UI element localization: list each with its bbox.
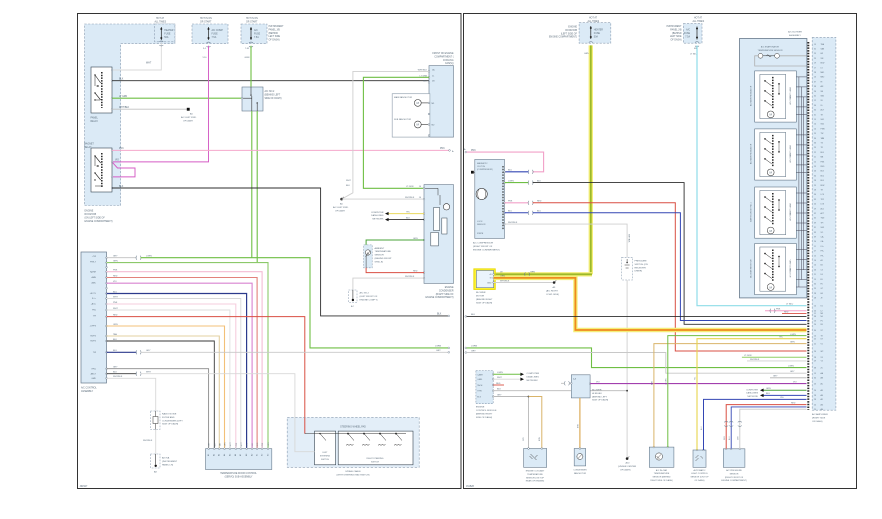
blower block 3 bbox=[750, 187, 807, 238]
svg-text:WHT/BLK: WHT/BLK bbox=[113, 376, 123, 378]
svg-text:AMH: AMH bbox=[92, 276, 97, 279]
svg-text:ROOM R/B: ROOM R/B bbox=[85, 214, 97, 216]
empty pin bbox=[106, 266, 108, 268]
svg-text:28: 28 bbox=[814, 190, 816, 192]
svg-text:34: 34 bbox=[814, 330, 816, 332]
svg-text:31: 31 bbox=[814, 227, 816, 229]
svg-text:ENGINE COMPARTMENT): ENGINE COMPARTMENT) bbox=[721, 479, 747, 482]
svg-text:ENGINE COOLANT: ENGINE COOLANT bbox=[526, 470, 545, 473]
engine coolant temp sensor bbox=[524, 448, 547, 483]
svg-text:SENSOR (ON TOP: SENSOR (ON TOP bbox=[526, 477, 545, 479]
label computer data lines right bbox=[746, 389, 759, 398]
steering pad label bbox=[336, 470, 369, 477]
svg-text:DATA LINES: DATA LINES bbox=[371, 214, 384, 217]
blower block 1 bbox=[750, 71, 807, 122]
wire row17 GRY drop bbox=[106, 367, 209, 449]
svg-text:RED: RED bbox=[413, 270, 418, 272]
wire row4 PNK drop bbox=[106, 270, 262, 449]
svg-text:PRESSURE: PRESSURE bbox=[635, 261, 648, 263]
svg-text:CANL: CANL bbox=[477, 378, 482, 381]
svg-text:T8: T8 bbox=[821, 335, 823, 337]
svg-text:PNK: PNK bbox=[113, 270, 118, 272]
svg-text:BLU: BLU bbox=[508, 211, 513, 213]
svg-text:SENSOR (BEHIND: SENSOR (BEHIND bbox=[653, 477, 671, 479]
svg-text:WHT/BLK: WHT/BLK bbox=[500, 280, 510, 282]
svg-text:CONDENSER: CONDENSER bbox=[439, 290, 454, 292]
svg-text:29: 29 bbox=[814, 409, 816, 411]
svg-text:A/C NO.2: A/C NO.2 bbox=[360, 292, 370, 295]
svg-text:HEATER: HEATER bbox=[164, 29, 173, 32]
svg-text:PNK: PNK bbox=[508, 201, 513, 203]
wire row13 ORN drop bbox=[106, 324, 225, 449]
wire BLK data line bbox=[385, 217, 424, 221]
svg-text:BLK: BLK bbox=[423, 80, 428, 82]
svg-text:RADIO NOISE: RADIO NOISE bbox=[162, 413, 177, 416]
svg-text:GRN: GRN bbox=[530, 272, 535, 274]
A/C in-car temperature sensor bbox=[649, 446, 674, 482]
svg-text:ENGINE: ENGINE bbox=[476, 407, 485, 409]
svg-text:19: 19 bbox=[814, 373, 816, 375]
blower HI relay box bbox=[561, 375, 608, 402]
svg-text:STEERING WHEEL PAD: STEERING WHEEL PAD bbox=[340, 426, 366, 429]
svg-text:LT GRN: LT GRN bbox=[665, 378, 667, 385]
label computer data lines bbox=[371, 212, 384, 221]
svg-text:WHT: WHT bbox=[113, 296, 118, 298]
svg-text:PNK: PNK bbox=[113, 302, 118, 304]
wire LT BLU to A/C amplifier bbox=[697, 45, 807, 305]
svg-text:7.5A: 7.5A bbox=[254, 36, 259, 39]
svg-text:33: 33 bbox=[814, 232, 816, 234]
svg-text:BLOWER REGULATOR: BLOWER REGULATOR bbox=[750, 85, 753, 106]
svg-text:OF DASH): OF DASH) bbox=[695, 479, 705, 482]
wire RED stub row bbox=[782, 311, 807, 313]
svg-text:ORN: ORN bbox=[500, 276, 505, 278]
svg-text:29: 29 bbox=[814, 147, 816, 149]
svg-text:(BEHIND: (BEHIND bbox=[269, 33, 279, 35]
svg-text:28: 28 bbox=[814, 72, 816, 74]
svg-text:RELAY: RELAY bbox=[84, 146, 92, 149]
pressure switch box bbox=[622, 257, 648, 280]
svg-text:HI RELAY: HI RELAY bbox=[592, 392, 602, 395]
wire LT GRN cooling fan to condenser ECU bbox=[363, 77, 429, 188]
svg-text:(RIGHT SIDE: (RIGHT SIDE bbox=[812, 418, 826, 420]
svg-text:HOT IN ON: HOT IN ON bbox=[246, 18, 258, 20]
svg-text:U9: U9 bbox=[821, 339, 823, 341]
svg-text:X3: X3 bbox=[821, 357, 823, 359]
svg-text:VENT CONNECTOR: VENT CONNECTOR bbox=[788, 260, 790, 278]
wire LT GRN stub row bbox=[742, 355, 807, 357]
svg-text:29: 29 bbox=[814, 58, 816, 60]
svg-text:GRY: GRY bbox=[773, 376, 778, 378]
svg-text:OF DASH): OF DASH) bbox=[269, 39, 280, 42]
svg-text:E5: E5 bbox=[821, 279, 823, 281]
svg-text:OF DASH: OF DASH bbox=[183, 119, 193, 122]
svg-text:STATE: STATE bbox=[477, 232, 484, 235]
svg-text:29: 29 bbox=[814, 53, 816, 55]
wire row6 VIO drop bbox=[106, 281, 252, 449]
svg-text:B1: B1 bbox=[257, 454, 259, 456]
svg-text:35: 35 bbox=[814, 218, 816, 220]
svg-text:(BEHIND RIGHT: (BEHIND RIGHT bbox=[476, 299, 493, 301]
svg-text:21: 21 bbox=[814, 157, 816, 159]
noise filter box bbox=[151, 411, 184, 430]
fuse box F1 left (HEATER FUSE) bbox=[155, 17, 175, 42]
wire GRN heater feed (highlighted) horizontal to blower bbox=[494, 272, 592, 277]
svg-text:A/C NO.2: A/C NO.2 bbox=[265, 90, 276, 93]
cooling fan connector box bbox=[418, 66, 454, 138]
wire BLU compressor long run bbox=[505, 211, 807, 321]
svg-text:SENSOR (ON TOP: SENSOR (ON TOP bbox=[691, 477, 710, 479]
svg-text:MAIN FAN MOTOR: MAIN FAN MOTOR bbox=[394, 96, 413, 99]
wire BLU light sensor to amplifier bbox=[701, 397, 806, 450]
relay PANEL RELAY bbox=[91, 67, 113, 123]
wire VIO long to amplifier bbox=[590, 381, 806, 383]
blower block 2 bbox=[750, 129, 807, 180]
svg-text:25: 25 bbox=[814, 339, 816, 341]
wire WHT/BLK ground to condenser ECU bbox=[342, 197, 424, 199]
svg-text:A/C EVAPORATOR: A/C EVAPORATOR bbox=[761, 46, 780, 49]
svg-text:P5: P5 bbox=[821, 320, 823, 322]
svg-text:16: 16 bbox=[814, 260, 816, 262]
ground box A/C NO.2 bbox=[349, 290, 378, 308]
svg-text:HEATER: HEATER bbox=[594, 29, 603, 32]
svg-text:34: 34 bbox=[814, 175, 816, 177]
svg-text:COMPARTMENT (: COMPARTMENT ( bbox=[434, 55, 453, 58]
svg-text:PNK: PNK bbox=[119, 148, 124, 150]
svg-text:LIGHT CONTROL: LIGHT CONTROL bbox=[691, 473, 709, 475]
svg-text:LEFT SIDE: LEFT SIDE bbox=[269, 36, 281, 38]
svg-text:THW: THW bbox=[477, 391, 482, 393]
svg-text:ENGINE COMPARTMENT): ENGINE COMPARTMENT) bbox=[426, 296, 454, 299]
svg-text:RECEIVER: RECEIVER bbox=[635, 267, 647, 269]
svg-text:TPI: TPI bbox=[93, 315, 97, 317]
svg-text:FUSE: FUSE bbox=[594, 33, 601, 35]
svg-text:L2: L2 bbox=[821, 311, 823, 313]
svg-text:WHT/BLK: WHT/BLK bbox=[119, 107, 130, 109]
A/C pressure sensor bbox=[721, 448, 747, 482]
svg-text:J9: J9 bbox=[821, 298, 823, 300]
svg-text:(BEHIND FRONT: (BEHIND FRONT bbox=[375, 258, 393, 260]
svg-text:SIDE OF DASH): SIDE OF DASH) bbox=[162, 423, 178, 426]
svg-text:11: 11 bbox=[814, 246, 816, 248]
svg-text:29: 29 bbox=[814, 208, 816, 210]
svg-text:MAGNETIC: MAGNETIC bbox=[477, 162, 488, 165]
svg-text:RDFG: RDFG bbox=[90, 341, 96, 343]
wire RED pressure sensor to amplifier bbox=[724, 402, 807, 448]
svg-text:34: 34 bbox=[814, 378, 816, 380]
svg-text:R6: R6 bbox=[821, 324, 823, 326]
svg-text:SWITCH (ON: SWITCH (ON bbox=[635, 264, 649, 266]
svg-text:BLK: BLK bbox=[471, 314, 476, 316]
fuse box F1 right (HEATER FUSE 50A) bbox=[549, 17, 611, 55]
svg-text:ASSEMBLY: ASSEMBLY bbox=[789, 34, 801, 37]
amplifier connector pin strip bbox=[807, 42, 809, 410]
svg-text:GRY: GRY bbox=[790, 371, 795, 373]
A/C blower assembly box bbox=[740, 31, 807, 298]
svg-text:LEFT SIDE: LEFT SIDE bbox=[670, 36, 682, 38]
svg-text:15: 15 bbox=[814, 255, 816, 257]
svg-text:GRN: GRN bbox=[413, 238, 418, 240]
svg-text:LT GRN: LT GRN bbox=[406, 186, 414, 188]
svg-text:23: 23 bbox=[814, 166, 816, 168]
svg-text:PANEL J/B: PANEL J/B bbox=[670, 28, 682, 31]
wire GRN branch 1 down bbox=[251, 111, 253, 258]
wire WHT/BLK compressor to pressure switch bbox=[505, 222, 630, 257]
svg-text:26: 26 bbox=[814, 269, 816, 271]
svg-text:SUB FAN MOTOR: SUB FAN MOTOR bbox=[394, 118, 412, 121]
wire BLU data line arrow to amplifier bbox=[760, 393, 807, 397]
svg-text:LT GRN: LT GRN bbox=[119, 96, 128, 98]
svg-text:38: 38 bbox=[814, 367, 816, 369]
svg-text:COOLING: COOLING bbox=[443, 60, 454, 62]
svg-text:Y4: Y4 bbox=[821, 361, 823, 363]
wire WHT/BLK stub row bbox=[747, 359, 807, 361]
svg-text:CLUTCH: CLUTCH bbox=[477, 166, 486, 168]
svg-text:10: 10 bbox=[814, 306, 816, 308]
svg-text:NETWORK: NETWORK bbox=[372, 219, 384, 221]
svg-text:22: 22 bbox=[814, 343, 816, 345]
svg-text:CONDENSER (LEFT: CONDENSER (LEFT bbox=[162, 420, 183, 422]
wire LGRN/BLK compressor long run bbox=[505, 180, 807, 324]
wire GRN branch 2 down bbox=[256, 111, 258, 263]
svg-text:SG1: SG1 bbox=[821, 119, 825, 121]
svg-text:AC1: AC1 bbox=[821, 207, 825, 210]
wire GRN data line arrow to amplifier bbox=[760, 388, 807, 392]
svg-text:WHT/BLK: WHT/BLK bbox=[750, 359, 760, 361]
svg-text:14: 14 bbox=[814, 128, 816, 130]
ground under center of dash bbox=[618, 456, 637, 471]
svg-text:WHT: WHT bbox=[146, 63, 152, 65]
wire LT GRN in-car sensor to amplifier bbox=[665, 334, 806, 447]
wire PNK stub row bbox=[765, 309, 807, 313]
wire WHT ECM data line bbox=[493, 377, 524, 381]
wire GRY panel relay to terminal bbox=[112, 107, 197, 122]
svg-text:BLK: BLK bbox=[113, 372, 118, 374]
svg-text:10: 10 bbox=[814, 335, 816, 337]
wire RED ECM stub bbox=[493, 383, 504, 385]
svg-text:GRY: GRY bbox=[471, 350, 476, 352]
svg-text:A6: A6 bbox=[234, 454, 237, 456]
svg-text:VIO: VIO bbox=[113, 281, 117, 283]
svg-text:M3: M3 bbox=[821, 313, 824, 315]
svg-text:A/C: A/C bbox=[254, 29, 258, 32]
svg-text:BLK: BLK bbox=[119, 186, 124, 188]
svg-text:WHT/BLK: WHT/BLK bbox=[143, 440, 153, 442]
svg-text:WHT/BLK: WHT/BLK bbox=[628, 234, 630, 243]
svg-text:TAM: TAM bbox=[821, 137, 825, 140]
svg-text:K1: K1 bbox=[821, 306, 823, 308]
svg-text:A/C COMPRESSOR: A/C COMPRESSOR bbox=[473, 242, 493, 245]
svg-text:BLOWER REGULATOR: BLOWER REGULATOR bbox=[750, 143, 753, 164]
wire row11 WHT drop bbox=[106, 308, 230, 449]
ground G2 bbox=[333, 197, 349, 212]
svg-text:(RIGHT SIDE OF: (RIGHT SIDE OF bbox=[436, 294, 454, 296]
svg-text:SENSOR: SENSOR bbox=[730, 473, 739, 475]
svg-text:PANEL J/B: PANEL J/B bbox=[269, 28, 281, 31]
svg-text:VIO: VIO bbox=[115, 160, 119, 162]
svg-text:CANH: CANH bbox=[477, 373, 483, 376]
wire WHT/BLK pressure switch to ground bbox=[626, 280, 628, 459]
temperature door control connector bbox=[206, 442, 272, 479]
svg-text:SIDE OF DASH): SIDE OF DASH) bbox=[476, 416, 492, 419]
svg-text:MOTOR: MOTOR bbox=[476, 296, 485, 298]
svg-text:RIGHT SIDE OF DASH): RIGHT SIDE OF DASH) bbox=[650, 479, 673, 482]
svg-text:SENSOR: SENSOR bbox=[375, 255, 385, 257]
svg-text:28: 28 bbox=[814, 399, 816, 401]
evaporator temperature sensor bbox=[755, 46, 807, 66]
svg-text:RED: RED bbox=[113, 315, 118, 317]
left panel frame bbox=[78, 14, 462, 489]
svg-text:WHT: WHT bbox=[146, 372, 151, 374]
svg-text:29: 29 bbox=[814, 185, 816, 187]
svg-text:RELAY: RELAY bbox=[91, 120, 99, 123]
wire GRN heater feed (highlighted) vertical bbox=[589, 45, 593, 274]
wire YEL data line bbox=[385, 211, 424, 215]
svg-text:LGRN: LGRN bbox=[435, 346, 441, 348]
svg-text:13: 13 bbox=[814, 77, 816, 79]
wire bus steering switches bbox=[305, 433, 406, 434]
svg-text:COMPUTER: COMPUTER bbox=[527, 373, 540, 375]
svg-text:GRY: GRY bbox=[146, 350, 151, 352]
blower block bus wires bbox=[799, 77, 804, 287]
svg-text:30: 30 bbox=[814, 110, 816, 112]
wire PNK arrival from left panel bbox=[464, 148, 544, 174]
right panel frame bbox=[464, 14, 857, 489]
svg-text:19: 19 bbox=[814, 279, 816, 281]
svg-text:BLK: BLK bbox=[437, 313, 442, 315]
svg-text:29: 29 bbox=[814, 288, 816, 290]
wire row5 RED drop bbox=[106, 275, 257, 448]
svg-text:LT BLU: LT BLU bbox=[786, 304, 794, 306]
svg-text:WHT/BLK: WHT/BLK bbox=[405, 197, 415, 199]
fan motor M1 bbox=[392, 94, 435, 137]
svg-text:RED: RED bbox=[113, 275, 118, 277]
svg-text:38: 38 bbox=[814, 86, 816, 88]
svg-text:COMPUTER: COMPUTER bbox=[746, 389, 758, 391]
svg-text:V1: V1 bbox=[821, 343, 823, 345]
svg-text:NpINH: NpINH bbox=[90, 272, 97, 274]
svg-text:26: 26 bbox=[814, 351, 816, 353]
svg-text:A/C BLOWER: A/C BLOWER bbox=[788, 31, 802, 34]
svg-text:BLW: BLW bbox=[821, 63, 825, 65]
svg-text:28: 28 bbox=[814, 180, 816, 182]
svg-text:TEMPERATURE: TEMPERATURE bbox=[527, 473, 543, 476]
svg-text:VENT CONNECTOR: VENT CONNECTOR bbox=[788, 87, 790, 105]
svg-text:21: 21 bbox=[814, 274, 816, 276]
svg-text:STEERING: STEERING bbox=[320, 455, 331, 457]
svg-text:(BEHIND LEFT: (BEHIND LEFT bbox=[265, 94, 281, 96]
svg-text:TEMPERATURE: TEMPERATURE bbox=[375, 250, 392, 253]
svg-text:C3: C3 bbox=[821, 269, 823, 271]
A/C amplifier box bbox=[812, 37, 836, 423]
wire GRN to ambient sensor bbox=[366, 238, 424, 245]
svg-text:19: 19 bbox=[814, 44, 816, 46]
svg-text:AMC: AMC bbox=[92, 281, 97, 284]
svg-text:COMPUTER: COMPUTER bbox=[371, 212, 384, 214]
svg-text:ENGINE COMPARTMENT): ENGINE COMPARTMENT) bbox=[85, 220, 113, 223]
svg-text:28: 28 bbox=[814, 298, 816, 300]
svg-text:SIDE OF DASH): SIDE OF DASH) bbox=[592, 399, 608, 402]
svg-text:CONTROL MODULE: CONTROL MODULE bbox=[476, 410, 497, 412]
svg-text:FUSE: FUSE bbox=[254, 33, 261, 35]
svg-text:50A: 50A bbox=[164, 36, 169, 39]
svg-text:DRIER): DRIER) bbox=[635, 271, 643, 273]
wire TAN junction to coolant sensor bbox=[523, 397, 542, 449]
svg-text:12: 12 bbox=[814, 100, 816, 102]
svg-text:PR-: PR- bbox=[821, 255, 824, 257]
svg-text:FAN MOTOR: FAN MOTOR bbox=[574, 472, 587, 475]
svg-text:RDFG: RDFG bbox=[90, 336, 96, 338]
svg-text:20: 20 bbox=[814, 204, 816, 206]
svg-text:LS+: LS+ bbox=[821, 246, 824, 248]
svg-text:CONDENSER: CONDENSER bbox=[573, 470, 587, 472]
svg-text:TW: TW bbox=[93, 352, 96, 354]
svg-text:GRN: GRN bbox=[245, 57, 250, 59]
svg-text:32: 32 bbox=[814, 49, 816, 51]
svg-text:36: 36 bbox=[814, 143, 816, 145]
svg-text:CA+: CA+ bbox=[821, 236, 825, 239]
svg-text:30: 30 bbox=[814, 284, 816, 286]
svg-text:ENGINE COMP'T): ENGINE COMP'T) bbox=[360, 299, 378, 301]
svg-text:A1: A1 bbox=[821, 259, 823, 262]
svg-text:BLK: BLK bbox=[406, 217, 411, 219]
wire row10 PNK drop bbox=[106, 302, 236, 449]
svg-text:RED: RED bbox=[496, 383, 501, 385]
wire RED into steering pad bbox=[304, 417, 306, 433]
svg-text:BLK: BLK bbox=[497, 389, 502, 391]
wire GRY pressure sensor to amplifier bbox=[738, 409, 807, 449]
svg-text:J61527: J61527 bbox=[80, 485, 89, 488]
svg-text:SWITCH: SWITCH bbox=[371, 461, 379, 463]
svg-text:AMBIENT: AMBIENT bbox=[375, 247, 385, 250]
svg-text:GRILLE): GRILLE) bbox=[375, 261, 384, 263]
svg-text:PR+: PR+ bbox=[821, 251, 825, 253]
wire BLK long from left panel to amplifier bbox=[465, 314, 807, 317]
svg-text:BLU: BLU bbox=[766, 393, 771, 395]
wire BLU pressure sensor to amplifier bbox=[729, 407, 807, 449]
svg-text:+ACC: +ACC bbox=[91, 303, 97, 306]
svg-text:7.5A: 7.5A bbox=[212, 36, 217, 39]
svg-text:Z5: Z5 bbox=[821, 367, 823, 369]
svg-text:LGRN: LGRN bbox=[471, 346, 477, 348]
wire GRY long from left panel bbox=[465, 350, 807, 373]
svg-text:F6: F6 bbox=[821, 284, 823, 286]
svg-text:INSTRUMENT: INSTRUMENT bbox=[269, 26, 285, 28]
svg-text:39: 39 bbox=[814, 222, 816, 224]
svg-text:WHT: WHT bbox=[113, 308, 118, 310]
svg-text:BLU: BLU bbox=[537, 211, 542, 213]
svg-text:A8: A8 bbox=[245, 454, 248, 456]
svg-text:(UNDER CENTER: (UNDER CENTER bbox=[618, 466, 637, 468]
wire row12 RED to steering pad bbox=[106, 315, 344, 434]
svg-text:PSW: PSW bbox=[821, 128, 825, 130]
svg-text:(WITH STEERING PAD SWITCH): (WITH STEERING PAD SWITCH) bbox=[336, 473, 369, 476]
junction block blue region (engine room R/B left) bbox=[85, 24, 175, 206]
svg-text:CA-: CA- bbox=[821, 240, 824, 243]
page id right bbox=[466, 485, 475, 488]
svg-text:ENGINE: ENGINE bbox=[568, 27, 577, 29]
svg-text:NETWORK: NETWORK bbox=[527, 380, 539, 382]
svg-text:H8: H8 bbox=[821, 293, 823, 295]
svg-text:RED: RED bbox=[791, 402, 796, 404]
svg-text:FUSE: FUSE bbox=[212, 33, 219, 35]
svg-text:29: 29 bbox=[814, 361, 816, 363]
svg-text:31: 31 bbox=[814, 114, 816, 116]
A/C control assembly box bbox=[81, 252, 107, 393]
svg-text:32: 32 bbox=[814, 213, 816, 215]
wire row1 GRY/LGRN to right panel bbox=[106, 256, 450, 349]
svg-text:A/C CONTROL: A/C CONTROL bbox=[81, 387, 97, 390]
